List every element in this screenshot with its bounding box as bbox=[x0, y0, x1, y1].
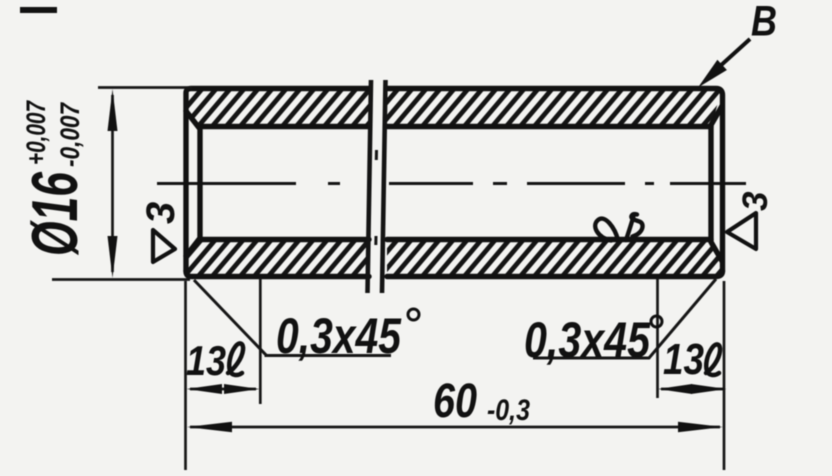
svg-text:13: 13 bbox=[663, 335, 704, 384]
svg-text:+0,007: +0,007 bbox=[21, 99, 51, 165]
svg-text:-0,3: -0,3 bbox=[487, 394, 530, 427]
svg-text:0,3x45: 0,3x45 bbox=[276, 308, 402, 364]
svg-text:3: 3 bbox=[139, 202, 183, 224]
svg-text:0,3x45: 0,3x45 bbox=[524, 312, 651, 368]
svg-text:Ø16: Ø16 bbox=[18, 171, 91, 256]
svg-text:B: B bbox=[751, 0, 777, 46]
svg-text:60: 60 bbox=[433, 375, 477, 428]
svg-text:-0,007: -0,007 bbox=[55, 101, 85, 167]
svg-text:13: 13 bbox=[186, 337, 226, 384]
svg-text:3: 3 bbox=[736, 191, 775, 211]
